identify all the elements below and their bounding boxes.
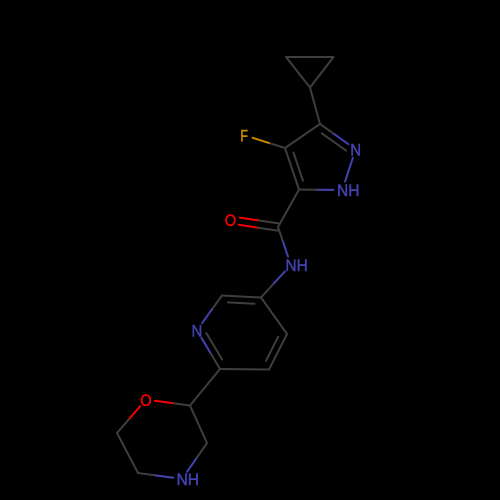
bond morpholine C2-O1 (Om half): [155, 401, 173, 403]
bond pyridine C6 - morpholine C2: [190, 369, 220, 406]
bond C4-F (Cb half): [269, 143, 285, 148]
bond amide N(H)-pyridine C3 (Nam half): [273, 271, 285, 284]
bond C=O lower line (O half): [240, 218, 259, 221]
bond C3=N1 main (N1 half): [334, 134, 348, 144]
bond cyclopropyl CH - pyrazole C3: [310, 88, 320, 125]
bond N2(H)-C5 (N2 half): [316, 189, 333, 191]
bond morpholine O1-C6 (C6m half): [117, 420, 129, 433]
svg-text:N: N: [192, 321, 203, 340]
bond C(=O)-N(H) amide (Nam half): [283, 242, 288, 257]
bond pyridine C2-N1 (C2p half): [212, 296, 222, 310]
bond cyclopropyl CH2-CH2: [286, 56, 334, 58]
bond pyridine C5=C4 inner line: [266, 337, 278, 361]
bond N2(H)-C5 (Ca half): [299, 189, 316, 191]
bond pyridine C3=C2 main: [222, 296, 261, 298]
bond pyridine N1=C6 inner line: [206, 333, 222, 359]
bond C5=C4 inner line: [294, 153, 304, 181]
bond pyridine C6-C5: [220, 368, 269, 371]
bond C(=O)-N(H) amide (Cc half): [278, 227, 283, 242]
bond N1-N2(H): [345, 158, 353, 182]
bond cyclopropyl CH2-CH (left): [286, 57, 310, 88]
bond C=O upper line (Cc half): [258, 228, 277, 231]
bond pyridine N1=C6 main (C6p half): [211, 353, 220, 369]
svg-text:O: O: [140, 391, 151, 410]
bond pyridine N1=C6 main (N1p half): [201, 338, 210, 354]
bond C3=N1 inner line: [322, 133, 346, 150]
bond C=O upper line (O half): [239, 225, 258, 228]
bond pyridine C4-C3: [261, 298, 287, 335]
bond morpholine N4(H)-C3 (C3m half): [197, 443, 207, 457]
bond amide N(H)-pyridine C3 (C3p half): [261, 284, 273, 297]
svg-text:NH: NH: [285, 256, 307, 275]
bond pyridine C5=C4 main: [269, 334, 287, 370]
bond C5=C4 main: [285, 148, 299, 190]
bond pyridine C3=C2 inner line: [228, 302, 255, 303]
bond C=O lower line (Cc half): [259, 221, 278, 224]
svg-text:NH: NH: [177, 470, 199, 489]
bond C5-C(=O): [278, 190, 299, 228]
bond C4-F (F half): [253, 138, 269, 143]
svg-text:NH: NH: [337, 181, 359, 200]
bond C3=N1 main (C3 half): [320, 124, 334, 134]
bond morpholine C2-O1 (C2m half): [172, 403, 190, 405]
bond morpholine C5-N4(H) (C5m half): [138, 473, 156, 475]
bond cyclopropyl CH2-CH (right): [310, 57, 334, 88]
bond morpholine C5-N4(H) (N4m half): [156, 475, 174, 477]
bond morpholine C3-C2: [190, 406, 207, 444]
bond morpholine N4(H)-C3 (N4m half): [187, 457, 197, 471]
svg-text:O: O: [225, 211, 236, 230]
bond morpholine C6-C5: [117, 433, 138, 473]
bond morpholine O1-C6 (Om half): [129, 406, 141, 419]
svg-text:F: F: [240, 126, 248, 145]
bond C4-C3: [285, 124, 320, 148]
bond pyridine C2-N1 (N1p half): [202, 309, 212, 323]
svg-text:N: N: [350, 141, 361, 160]
